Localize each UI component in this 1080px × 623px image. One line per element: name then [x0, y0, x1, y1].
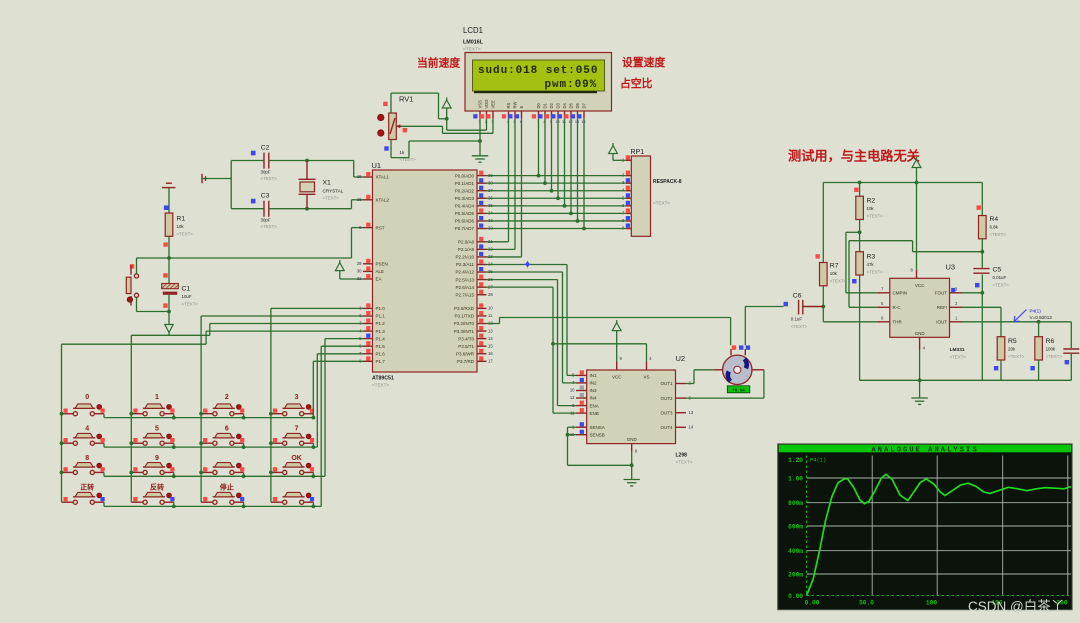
svg-text:EA: EA	[376, 277, 382, 282]
svg-text:13: 13	[488, 328, 493, 333]
svg-text:800m: 800m	[788, 500, 803, 507]
svg-text:P4(1): P4(1)	[1030, 309, 1042, 314]
svg-text:CSDN @白茶丫: CSDN @白茶丫	[968, 599, 1064, 614]
svg-text:PSEN: PSEN	[376, 262, 388, 267]
svg-text:P0.7/AD7: P0.7/AD7	[455, 226, 475, 231]
wire RV1 bottom to ground net	[391, 140, 480, 158]
svg-text:pwm:09%: pwm:09%	[545, 79, 598, 91]
svg-text:X1: X1	[323, 180, 332, 187]
wire VS to P2.6 net	[553, 344, 647, 362]
svg-text:P0.0/AD0: P0.0/AD0	[455, 173, 475, 178]
push button 0	[62, 394, 105, 416]
svg-text:<TEXT>: <TEXT>	[990, 232, 1007, 237]
svg-text:U1: U1	[372, 161, 382, 170]
svg-text:测试用，与主电路无关: 测试用，与主电路无关	[788, 148, 921, 164]
svg-text:P3.6/WR: P3.6/WR	[456, 351, 475, 356]
svg-text:P0.3/AD3: P0.3/AD3	[455, 196, 475, 201]
push button 反转	[131, 483, 174, 505]
wire C1 to ground arrow	[167, 295, 171, 325]
svg-text:7: 7	[295, 426, 299, 433]
wire C7 bottom	[1070, 354, 1072, 380]
svg-text:<TEXT>: <TEXT>	[1046, 354, 1063, 359]
svg-text:ANALOGUE ANALYSIS: ANALOGUE ANALYSIS	[871, 447, 978, 455]
svg-text:10k: 10k	[830, 271, 838, 276]
svg-text:16: 16	[488, 351, 493, 356]
svg-text:10k: 10k	[177, 224, 185, 229]
capacitor C7	[1063, 349, 1079, 364]
svg-text:D6: D6	[575, 102, 580, 108]
svg-text:600m: 600m	[788, 524, 803, 531]
wire keypad column 1 (P1.3)	[60, 331, 363, 502]
svg-text:P2.6/A14: P2.6/A14	[455, 285, 474, 290]
push button OK	[271, 455, 314, 475]
svg-text:14: 14	[689, 425, 694, 430]
svg-text:1: 1	[155, 394, 159, 401]
svg-text:GND: GND	[915, 331, 926, 336]
svg-text:6: 6	[225, 426, 229, 433]
svg-text:VS: VS	[643, 375, 649, 380]
wire XTAL2 net	[269, 200, 363, 211]
svg-text:30pF: 30pF	[261, 170, 271, 175]
svg-text:<TEXT>: <TEXT>	[993, 283, 1010, 288]
label duty cycle	[620, 76, 653, 90]
svg-text:P3.4/T0: P3.4/T0	[458, 336, 474, 341]
svg-text:L298: L298	[676, 453, 688, 459]
svg-text:1k: 1k	[400, 150, 405, 155]
svg-text:C3: C3	[261, 193, 270, 200]
push button SW r3c3	[201, 463, 244, 475]
svg-text:<TEXT>: <TEXT>	[372, 383, 389, 388]
svg-text:100: 100	[926, 600, 937, 607]
wire keypad column 3 (P1.1)	[199, 316, 363, 502]
svg-text:P1.0: P1.0	[376, 306, 386, 311]
svg-text:10: 10	[488, 306, 493, 311]
push button SW r4c4	[271, 492, 314, 504]
capacitor C2	[251, 145, 277, 182]
svg-text:15: 15	[488, 343, 493, 348]
svg-text:R5: R5	[1008, 338, 1017, 345]
svg-text:<TEXT>: <TEXT>	[653, 201, 670, 206]
svg-text:9: 9	[155, 455, 159, 462]
svg-text:GND: GND	[627, 437, 638, 442]
potentiometer RV1	[378, 95, 417, 162]
svg-text:C5: C5	[993, 267, 1002, 274]
svg-text:VDD: VDD	[484, 100, 489, 109]
svg-text:P0.1/AD1: P0.1/AD1	[455, 181, 475, 186]
motor M1 (DC motor)	[714, 345, 764, 393]
svg-text:1.00: 1.00	[788, 476, 803, 483]
wire R6 bottom	[1038, 360, 1040, 380]
svg-text:D7: D7	[582, 102, 587, 108]
svg-text:P3.3/INT1: P3.3/INT1	[454, 329, 475, 334]
svg-text:P2.5/A13: P2.5/A13	[455, 277, 474, 282]
svg-text:+0.04: +0.04	[732, 389, 745, 393]
svg-text:SENSA: SENSA	[590, 425, 605, 430]
svg-text:VCC: VCC	[915, 283, 925, 288]
wire OUT1 to motor	[686, 370, 714, 384]
push button 8	[62, 455, 105, 475]
svg-text:0.01uF: 0.01uF	[993, 275, 1007, 280]
svg-text:P0.5/AD5: P0.5/AD5	[455, 211, 475, 216]
wire REF to R5	[962, 307, 1001, 336]
svg-text:P3.7/RD: P3.7/RD	[457, 359, 475, 364]
push button 5	[131, 426, 174, 446]
svg-text:SENSB: SENSB	[590, 432, 605, 437]
svg-text:P1.5: P1.5	[376, 344, 386, 349]
wire keypad row 1 (P1.7)	[104, 361, 363, 419]
svg-text:R7: R7	[830, 263, 839, 270]
wire R7 bottom / C6 / THR net	[821, 286, 877, 322]
svg-text:20k: 20k	[1008, 347, 1016, 352]
svg-text:400m: 400m	[788, 548, 803, 555]
LCD display LCD1 LM016L	[463, 26, 612, 124]
svg-text:8: 8	[85, 455, 89, 462]
svg-text:100k: 100k	[1046, 347, 1056, 352]
wire crystal common net	[202, 161, 264, 209]
power terminal (above R1)	[162, 183, 176, 187]
svg-text:ENA: ENA	[590, 403, 599, 408]
crystal X1	[299, 161, 344, 209]
svg-text:E: E	[519, 106, 524, 109]
push button 1	[131, 394, 174, 416]
svg-text:THR: THR	[893, 320, 903, 325]
svg-text:R2: R2	[867, 198, 876, 205]
push button 2	[201, 394, 244, 416]
svg-text:10uF: 10uF	[182, 294, 192, 299]
frequency converter U3 LM331	[877, 263, 966, 360]
svg-text:<TEXT>: <TEXT>	[791, 324, 808, 329]
svg-text:5: 5	[155, 426, 159, 433]
svg-text:C6: C6	[793, 293, 802, 300]
power arrow (U2 VCC)	[612, 320, 621, 361]
svg-text:<TEXT>: <TEXT>	[1008, 354, 1025, 359]
wire keypad row 3 (P1.4)	[104, 339, 363, 479]
wire P0 bus to RP1 and LCD data lines	[487, 119, 626, 231]
svg-text:OUT4: OUT4	[660, 425, 672, 430]
svg-text:P3.5/T1: P3.5/T1	[458, 344, 474, 349]
svg-text:C2: C2	[261, 145, 270, 152]
ground (U3)	[911, 398, 927, 404]
wire R2-R3 node to CMPIN	[846, 220, 877, 293]
svg-text:ALE: ALE	[376, 269, 385, 274]
svg-text:RST: RST	[376, 225, 385, 230]
wire OUT2 to motor	[686, 370, 764, 398]
voltage probe P4(1)	[1014, 309, 1052, 322]
capacitor C1	[162, 273, 199, 308]
svg-text:P1.4: P1.4	[376, 336, 386, 341]
microcontroller U1 AT89C51	[357, 161, 494, 388]
push button 6	[201, 426, 244, 446]
wire SENSA SENSB to GND	[566, 427, 634, 479]
svg-text:OUT1: OUT1	[660, 381, 672, 386]
svg-text:FOUT: FOUT	[935, 291, 947, 296]
wire R4 bottom to C5 and R-C jog	[849, 239, 984, 307]
wire P3.2 PWM to motor	[487, 318, 731, 346]
wire R3 bottom to ground rail	[859, 275, 861, 380]
svg-text:IOUT: IOUT	[936, 320, 947, 325]
watermark CSDN	[968, 599, 1064, 614]
svg-text:RESPACK-8: RESPACK-8	[653, 179, 682, 185]
svg-text:0.00: 0.00	[788, 593, 803, 600]
svg-text:14: 14	[488, 336, 493, 341]
svg-text:P0.4/AD4: P0.4/AD4	[455, 204, 475, 209]
svg-text:P1.1: P1.1	[376, 314, 386, 319]
svg-text:P1.6: P1.6	[376, 352, 386, 357]
wire C5 bottom to FOUT and ground rail	[962, 275, 984, 381]
resistor R7	[816, 254, 847, 286]
ground (U2)	[624, 480, 640, 486]
svg-text:P3.1/TXD: P3.1/TXD	[454, 314, 474, 319]
power arrow (EA)	[335, 260, 344, 271]
resistor R6	[1030, 337, 1062, 371]
svg-text:D3: D3	[556, 102, 561, 108]
wire XTAL1 net	[269, 159, 363, 177]
svg-text:18: 18	[357, 197, 362, 202]
wire VDD net	[447, 119, 487, 131]
motor driver U2 L298	[570, 354, 694, 465]
wire RV1 top to VCC	[391, 93, 447, 119]
svg-text:V=0.92013: V=0.92013	[1030, 315, 1053, 320]
svg-text:29: 29	[357, 261, 362, 266]
svg-text:<TEXT>: <TEXT>	[676, 460, 693, 465]
svg-text:19: 19	[357, 174, 362, 179]
wire keypad row 4 (P1.5)	[104, 346, 363, 508]
wire keypad column 4 (P1.0)	[269, 308, 363, 502]
ground terminal arrow (reset)	[165, 325, 173, 335]
svg-text:P2.0/A8: P2.0/A8	[458, 240, 475, 245]
capacitor C5	[973, 267, 1009, 288]
svg-text:U2: U2	[676, 354, 686, 363]
svg-text:IN2: IN2	[590, 381, 598, 386]
svg-text:28: 28	[488, 292, 493, 297]
svg-text:OUT3: OUT3	[660, 410, 672, 415]
svg-text:XTAL2: XTAL2	[376, 198, 390, 203]
wire U3 GND to ground	[918, 350, 922, 398]
svg-text:<TEXT>: <TEXT>	[323, 196, 340, 201]
push button reset	[126, 264, 138, 305]
svg-text:占空比: 占空比	[620, 76, 653, 90]
push button 4	[62, 426, 105, 446]
svg-text:P2.1/A9: P2.1/A9	[458, 247, 475, 252]
wire RST net	[137, 228, 364, 274]
resistor pack RP1 RESPACK-8	[622, 149, 682, 236]
power arrow (LCD VDD)	[442, 98, 451, 131]
svg-text:<TEXT>: <TEXT>	[182, 302, 199, 307]
resistor R4	[977, 205, 1007, 238]
resistor R1	[163, 213, 193, 247]
wire keypad row 2 (P1.6)	[104, 354, 363, 449]
push button 3	[271, 394, 314, 416]
power arrow (test VCC)	[912, 157, 921, 270]
svg-text:停止: 停止	[220, 483, 234, 492]
label set speed	[622, 55, 665, 69]
wire reset button bottom	[137, 297, 170, 311]
wire motor to C6	[745, 307, 783, 346]
wire power to R1	[164, 188, 169, 213]
svg-text:R3: R3	[867, 254, 876, 261]
svg-text:RP1: RP1	[631, 149, 645, 156]
capacitor C6	[784, 293, 824, 330]
svg-text:30pF: 30pF	[261, 218, 271, 223]
svg-text:P2.7/A15: P2.7/A15	[455, 292, 474, 297]
svg-text:0: 0	[85, 394, 89, 401]
svg-text:17: 17	[488, 359, 493, 364]
node marker (P2.3 wire)	[524, 261, 531, 268]
wire R5 bottom	[1000, 360, 1002, 380]
svg-text:正转: 正转	[80, 483, 94, 492]
svg-text:R4: R4	[990, 216, 999, 223]
svg-text:<TEXT>: <TEXT>	[950, 355, 967, 360]
svg-text:LCD1: LCD1	[463, 26, 483, 35]
analogue analysis graph window	[778, 444, 1072, 610]
svg-text:200m: 200m	[788, 572, 803, 579]
svg-text:D4: D4	[562, 102, 567, 108]
wire test ground rail	[860, 379, 1072, 381]
label test circuit note	[788, 148, 921, 164]
svg-text:P2.2/A10: P2.2/A10	[455, 255, 474, 260]
svg-text:VEE: VEE	[491, 100, 496, 109]
svg-text:<TEXT>: <TEXT>	[261, 176, 278, 181]
wire LCD RS RW E to P2.0-P2.2	[487, 119, 522, 257]
svg-text:10k: 10k	[867, 206, 875, 211]
ground (LCD VSS)	[472, 156, 488, 162]
resistor R5	[994, 337, 1025, 371]
svg-text:P0.2/AD2: P0.2/AD2	[455, 188, 475, 193]
svg-text:D0: D0	[536, 102, 541, 108]
svg-text:0.00: 0.00	[805, 600, 820, 607]
svg-text:<TEXT>: <TEXT>	[177, 232, 194, 237]
svg-text:<TEXT>: <TEXT>	[463, 47, 481, 53]
svg-text:10: 10	[570, 388, 575, 393]
svg-text:CRYSTAL: CRYSTAL	[323, 189, 344, 194]
wire P2.3-P2.6 to U2 inputs	[487, 265, 577, 414]
resistor R3	[852, 252, 883, 284]
capacitor C3	[251, 193, 277, 230]
svg-text:VCC: VCC	[612, 375, 622, 380]
svg-text:<TEXT>: <TEXT>	[867, 214, 884, 219]
svg-text:11: 11	[570, 410, 575, 415]
svg-text:D1: D1	[543, 102, 548, 108]
push button 9	[131, 455, 174, 475]
svg-text:0.1uF: 0.1uF	[791, 317, 803, 322]
power arrow (RP1)	[609, 143, 626, 160]
push button 7	[271, 426, 314, 446]
svg-text:47k: 47k	[867, 262, 875, 267]
svg-text:反转: 反转	[150, 483, 164, 492]
svg-text:R1: R1	[177, 216, 186, 223]
svg-text:R6: R6	[1046, 338, 1055, 345]
svg-text:VSS: VSS	[478, 100, 483, 109]
svg-text:50.0: 50.0	[859, 600, 874, 607]
wire VSS to ground	[478, 119, 482, 156]
svg-text:13: 13	[689, 410, 694, 415]
svg-text:ENB: ENB	[590, 411, 599, 416]
svg-text:设置速度: 设置速度	[622, 55, 665, 69]
svg-text:2: 2	[225, 394, 229, 401]
svg-text:OUT2: OUT2	[660, 396, 672, 401]
svg-text:AT89C51: AT89C51	[372, 376, 394, 382]
svg-text:1.20: 1.20	[788, 457, 803, 464]
push button 正转	[62, 483, 105, 505]
wire IOUT output net	[962, 320, 1071, 348]
svg-text:P1.3: P1.3	[376, 329, 386, 334]
svg-text:11: 11	[488, 313, 493, 318]
svg-text:XTAL1: XTAL1	[376, 175, 390, 180]
svg-text:RW: RW	[513, 102, 518, 109]
svg-text:<TEXT>: <TEXT>	[867, 270, 884, 275]
svg-text:31: 31	[357, 276, 362, 281]
svg-text:RS: RS	[506, 102, 511, 108]
svg-text:IN3: IN3	[590, 388, 598, 393]
label current speed	[417, 56, 460, 70]
svg-text:当前速度: 当前速度	[417, 56, 460, 70]
svg-text:IN4: IN4	[590, 396, 598, 401]
svg-text:P2.3/A11: P2.3/A11	[456, 262, 475, 267]
svg-text:P1.2: P1.2	[376, 321, 386, 326]
svg-text:3: 3	[295, 394, 299, 401]
svg-text:LM016L: LM016L	[463, 40, 484, 46]
svg-text:D5: D5	[569, 102, 574, 108]
svg-text:OK: OK	[291, 455, 302, 462]
wire R1 to RST node	[167, 236, 171, 283]
svg-text:RV1: RV1	[399, 95, 413, 104]
wire keypad column 2 (P1.2)	[129, 324, 363, 503]
svg-text:P0.6/AD6: P0.6/AD6	[455, 219, 475, 224]
svg-text:P1.7: P1.7	[376, 359, 386, 364]
svg-text:C1: C1	[182, 286, 191, 293]
svg-text:P4(1): P4(1)	[810, 458, 826, 464]
svg-text:<TEXT>: <TEXT>	[830, 279, 847, 284]
svg-text:R-C: R-C	[893, 305, 902, 310]
wire RV1 wiper to VEE	[402, 119, 493, 134]
svg-text:12: 12	[570, 395, 575, 400]
svg-text:4: 4	[85, 426, 89, 433]
push button 停止	[201, 483, 244, 505]
svg-text:30: 30	[357, 269, 362, 274]
svg-text:IN1: IN1	[590, 373, 598, 378]
svg-text:LM331: LM331	[950, 347, 965, 353]
svg-text:P3.0/RXD: P3.0/RXD	[454, 306, 475, 311]
ground terminal (crystal common)	[202, 174, 206, 183]
svg-text:sudu:018 set:050: sudu:018 set:050	[478, 65, 598, 77]
wire EA net	[340, 271, 363, 279]
svg-text:<TEXT>: <TEXT>	[261, 224, 278, 229]
svg-text:P3.2/INT0: P3.2/INT0	[454, 321, 475, 326]
resistor R2	[854, 181, 883, 220]
svg-text:6.8k: 6.8k	[990, 225, 999, 230]
svg-text:U3: U3	[946, 263, 956, 272]
wire test top rail	[823, 183, 982, 263]
svg-text:REFI: REFI	[937, 305, 947, 310]
svg-text:CMPIN: CMPIN	[893, 291, 908, 296]
svg-text:P2.4/A12: P2.4/A12	[455, 270, 474, 275]
svg-text:D2: D2	[549, 102, 554, 108]
